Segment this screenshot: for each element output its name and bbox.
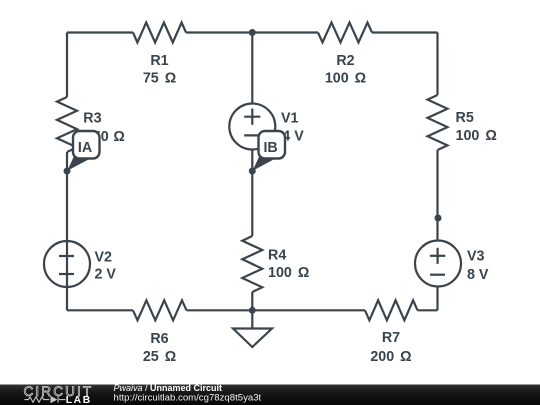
svg-text:2 V: 2 V bbox=[95, 267, 117, 283]
svg-text:V2: V2 bbox=[95, 250, 113, 266]
svg-text:V3: V3 bbox=[467, 249, 485, 265]
svg-text:200 Ω: 200 Ω bbox=[370, 349, 411, 365]
svg-text:R5: R5 bbox=[456, 110, 474, 126]
svg-text:R1: R1 bbox=[150, 53, 168, 69]
svg-text:IB: IB bbox=[263, 140, 277, 156]
svg-text:Ω: Ω bbox=[113, 129, 124, 145]
svg-text:http://circuitlab.com/cg78zq8t: http://circuitlab.com/cg78zq8t5ya3t bbox=[114, 392, 262, 403]
svg-text:100 Ω: 100 Ω bbox=[268, 265, 309, 281]
svg-text:R2: R2 bbox=[336, 53, 354, 69]
svg-text:R6: R6 bbox=[150, 331, 168, 347]
svg-text:LAB: LAB bbox=[66, 395, 92, 405]
svg-text:V1: V1 bbox=[281, 110, 299, 126]
svg-text:IA: IA bbox=[78, 140, 92, 156]
svg-text:8 V: 8 V bbox=[467, 267, 489, 283]
svg-text:100 Ω: 100 Ω bbox=[456, 128, 497, 144]
svg-text:100 Ω: 100 Ω bbox=[325, 70, 366, 86]
svg-text:Pwaiva / Unnamed Circuit: Pwaiva / Unnamed Circuit bbox=[114, 383, 223, 393]
svg-text:R4: R4 bbox=[268, 248, 286, 264]
svg-text:R7: R7 bbox=[382, 330, 400, 346]
svg-text:R3: R3 bbox=[83, 110, 101, 126]
